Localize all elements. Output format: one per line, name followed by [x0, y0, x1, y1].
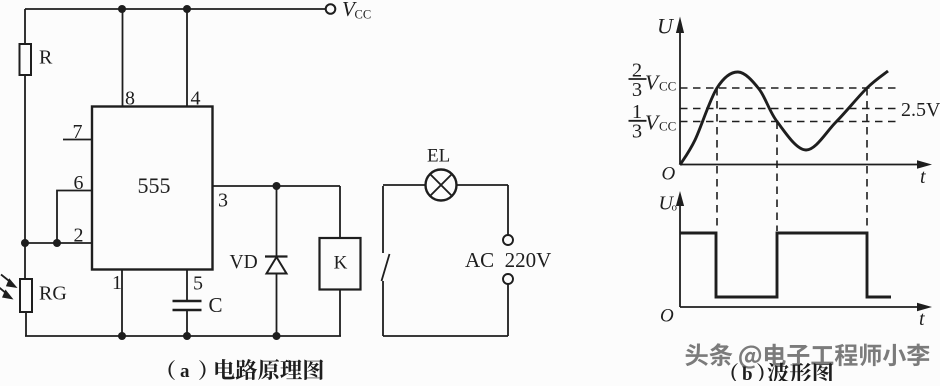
- svg-text:R: R: [39, 47, 53, 69]
- watermark @: [739, 346, 761, 369]
- diode VD cathode bar: [265, 255, 288, 257]
- threshold dashed line 1/3 Vcc: [680, 121, 897, 123]
- pin 3 wire: [213, 185, 341, 187]
- wire AC right upper: [507, 185, 509, 235]
- svg-text:6: 6: [74, 172, 84, 194]
- arrowhead U axis: [676, 17, 684, 34]
- svg-text:3: 3: [218, 190, 228, 212]
- wire left rail upper: [24, 9, 26, 44]
- svg-text:CC: CC: [659, 79, 676, 94]
- wire lamp loop top left: [383, 184, 426, 186]
- pin 7 wire: [63, 139, 92, 141]
- svg-text:555: 555: [138, 173, 171, 198]
- svg-text:EL: EL: [427, 146, 450, 167]
- svg-text:CC: CC: [355, 8, 372, 22]
- junction rail pin2: [21, 239, 29, 247]
- diode VD triangle: [267, 257, 287, 274]
- caption a paren close: [199, 360, 205, 380]
- axis t horizontal bottom graph: [680, 306, 922, 308]
- pin 4 wire: [186, 9, 188, 107]
- caption b paren close: [757, 363, 763, 383]
- caption a paren open: [168, 360, 174, 380]
- wire AC right lower: [507, 285, 509, 337]
- ic 555 U1: [92, 107, 213, 270]
- lamp EL circle: [426, 170, 457, 201]
- pin 1 wire: [121, 270, 123, 337]
- svg-text:C: C: [209, 293, 223, 317]
- svg-text:K: K: [334, 253, 348, 274]
- svg-text:7: 7: [73, 121, 83, 143]
- junction bottom pin1: [118, 332, 126, 340]
- resistor R: [20, 44, 32, 75]
- junction bottom C: [183, 332, 191, 340]
- svg-text:3: 3: [632, 79, 642, 101]
- axis t horizontal top graph: [680, 164, 923, 166]
- relay K wire lower: [339, 290, 341, 337]
- svg-text:O: O: [660, 306, 674, 327]
- switch K contact: [382, 186, 390, 336]
- relay K coil box: [320, 238, 361, 290]
- pin 6 wire: [57, 191, 92, 244]
- svg-text:U: U: [657, 14, 675, 39]
- arrowhead Uo axis: [676, 191, 684, 206]
- waveform U capacitor curve: [680, 71, 888, 165]
- svg-text:4: 4: [191, 88, 201, 110]
- svg-text:RG: RG: [39, 283, 67, 305]
- svg-text:a: a: [180, 361, 190, 381]
- svg-text:t: t: [920, 166, 926, 188]
- junction top pin8: [118, 5, 126, 13]
- wire top rail: [25, 8, 326, 10]
- relay K wire upper: [339, 186, 341, 238]
- terminal AC top: [503, 235, 513, 245]
- dashed vertical t2: [776, 122, 778, 232]
- svg-text:3: 3: [632, 121, 642, 143]
- dashed vertical t1: [716, 88, 718, 231]
- axis U vertical top graph: [679, 30, 681, 165]
- svg-text:5: 5: [193, 273, 203, 295]
- arrowhead t axis top: [917, 160, 932, 169]
- pin 5 wire upper: [186, 270, 188, 302]
- svg-text:8: 8: [125, 88, 135, 110]
- axis Uo vertical bottom graph: [679, 202, 681, 307]
- pin 2 wire: [25, 242, 92, 244]
- waveform Uo square wave: [680, 233, 891, 297]
- photoresistor RG body: [20, 279, 32, 312]
- terminal Vcc circle: [326, 4, 336, 14]
- svg-text:2: 2: [74, 225, 84, 247]
- diode VD wire lower: [276, 274, 278, 337]
- svg-text:o: o: [672, 202, 678, 214]
- dashed vertical t3: [866, 88, 868, 231]
- capacitor C lower wire: [186, 310, 188, 336]
- svg-text:CC: CC: [659, 119, 676, 134]
- svg-text:2.5V: 2.5V: [901, 99, 940, 121]
- wire bottom rail: [25, 335, 341, 337]
- caption b text 波形图: [768, 363, 833, 384]
- svg-text:b: b: [742, 364, 753, 381]
- svg-text:t: t: [919, 308, 925, 330]
- threshold dashed line 2/3 Vcc: [680, 87, 897, 89]
- svg-text:1: 1: [112, 272, 122, 294]
- photoresistor RG arrows: [0, 275, 11, 295]
- pin 8 wire: [122, 9, 124, 107]
- junction top pin4: [183, 5, 191, 13]
- wire left rail mid: [24, 75, 26, 279]
- wire left rail lower: [25, 312, 27, 336]
- junction pin6 pin2: [53, 239, 61, 247]
- junction pin3 VD: [273, 182, 281, 190]
- watermark 电子工程师小李: [765, 344, 930, 367]
- terminal AC bottom: [503, 274, 513, 284]
- threshold dashed line 2.5V: [680, 108, 897, 110]
- lamp EL cross: [430, 174, 452, 196]
- svg-text:AC 220V: AC 220V: [465, 248, 551, 272]
- junction bottom VD: [273, 332, 281, 340]
- diode VD wire upper: [276, 186, 278, 257]
- caption a text 电路原理图: [215, 359, 323, 380]
- svg-text:O: O: [662, 164, 676, 185]
- capacitor C plates: [173, 301, 202, 310]
- wire lamp loop top right: [457, 184, 509, 186]
- watermark 头条: [685, 343, 732, 366]
- wire lamp loop bottom: [383, 335, 508, 337]
- arrowhead t axis bottom: [917, 303, 932, 312]
- caption b paren open: [731, 363, 737, 383]
- svg-text:VD: VD: [230, 252, 258, 273]
